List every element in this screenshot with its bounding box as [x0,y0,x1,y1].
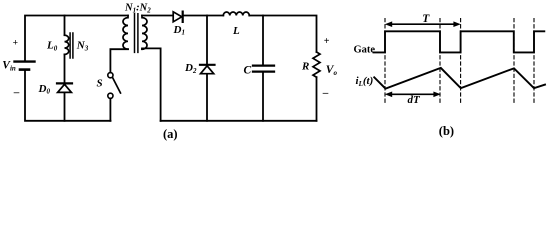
diode D0 triangle [58,84,72,92]
svg-text:–: – [322,87,329,99]
wire: secondary bottom rail [161,120,317,122]
transformer secondary winding N2 [142,16,147,50]
diode D1 triangle [173,12,182,22]
diode D1 cathode bar [182,12,184,22]
wire: secondary return to bottom rail [142,48,161,120]
gate drive waveform [374,31,545,52]
svg-text:L: L [232,25,240,37]
wire: primary winding bottom to switch [110,49,128,72]
svg-text:(b): (b) [439,124,454,138]
wire: D2 branch [206,16,208,65]
wire: L0 to D0 [64,54,66,83]
dashed timing line dT1 [439,19,441,105]
period arrow T [385,21,461,27]
capacitor C top plate [253,64,274,66]
diode D0 cathode bar [57,82,72,84]
wire: D2 to bottom rail [206,74,208,121]
transformer primary winding N1 [123,16,128,50]
dashed timing line dT2 [513,19,515,105]
wire: C to bottom rail [262,73,264,121]
svg-text:T: T [422,13,430,25]
svg-text:–: – [13,87,20,99]
diode D2 triangle [201,66,214,74]
wire: R to bottom rail [316,77,318,121]
wire: L to output corner and down to R [249,16,316,53]
svg-text:(a): (a) [163,127,178,141]
wire: primary top rail and left vertical to battery [25,16,128,61]
inductor L winding [223,12,249,15]
wire: D0 to bottom rail [64,93,66,121]
battery Vin short plate [20,68,29,71]
svg-text:Vo: Vo [326,64,338,77]
battery Vin long plate [15,60,35,62]
svg-text:iL(t): iL(t) [356,75,374,88]
svg-text:Gate: Gate [354,44,376,55]
duty interval arrow dT [385,92,441,98]
svg-text:+: + [324,36,330,47]
capacitor C bottom plate [253,70,274,72]
svg-text:N1:N2: N1:N2 [124,2,151,14]
dashed timing line T1 [460,19,462,105]
wire: battery negative down and primary bottom rail [25,71,111,121]
svg-text:D0: D0 [38,83,51,96]
wire: D1 to inductor L [184,15,224,17]
wire: switch to bottom rail [109,99,111,121]
svg-text:C: C [244,65,252,77]
wire: secondary top to D1 [142,15,173,17]
diode D2 cathode bar [200,64,215,66]
svg-text:S: S [97,78,103,90]
svg-text:+: + [13,39,18,49]
svg-text:dT: dT [408,94,422,106]
wire: C branch [262,16,264,65]
switch S bottom contact [108,93,113,98]
svg-text:R: R [301,61,309,73]
transformer core [135,14,138,53]
dashed timing line T2 [533,19,535,105]
svg-text:D2: D2 [184,62,197,75]
switch S top contact [108,73,113,78]
wire: L0 branch from top rail [64,16,66,36]
inductor L0 winding [65,35,69,54]
inductor current waveform [374,68,545,89]
svg-text:N3: N3 [76,40,89,53]
switch S blade [113,78,121,93]
dashed timing line t0 [384,19,386,105]
svg-text:D1: D1 [173,24,185,37]
core bars of coupled inductor L0/N3 [70,33,73,58]
resistor R zigzag [313,52,320,77]
svg-text:L0: L0 [46,40,58,53]
